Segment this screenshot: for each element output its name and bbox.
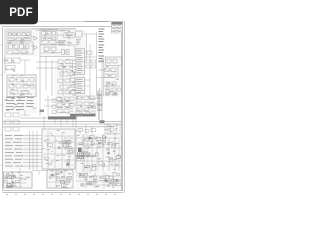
power area wires <box>76 134 121 171</box>
frame ticks left <box>0 45 2 165</box>
right mid small parts <box>97 58 122 96</box>
power area shades <box>82 134 85 172</box>
antenna arrow B <box>34 46 38 50</box>
page outer edge <box>0 22 125 194</box>
right cluster under IC <box>77 96 102 112</box>
notes list column <box>99 29 105 62</box>
audio area text labels <box>9 75 34 95</box>
right mid block <box>98 57 121 96</box>
svg-text:PDF: PDF <box>9 7 33 19</box>
audio block parts <box>9 78 34 95</box>
left mid connector cluster <box>3 58 30 75</box>
SAW filter block <box>40 30 57 45</box>
video amp box Q301 <box>76 31 83 37</box>
power transformer T501 <box>78 153 84 159</box>
ic right cluster <box>86 51 96 68</box>
sub IC U302 pins <box>77 79 83 93</box>
VIF module rounded <box>63 33 75 38</box>
sub board text labels <box>42 130 74 165</box>
jungle IC U301 pins <box>77 50 83 73</box>
frame ticks bottom <box>6 193 116 195</box>
chroma text labels <box>58 97 73 113</box>
flyback dark mark <box>78 148 82 153</box>
mid-right strip text <box>97 95 103 111</box>
ic cluster extras <box>79 106 95 116</box>
PDF badge <box>0 0 38 24</box>
middle sub-board box <box>42 129 75 169</box>
sub IC U302 body <box>76 78 85 94</box>
inter-box wire <box>32 171 47 176</box>
module notes text <box>58 41 71 46</box>
schematic frame <box>3 27 123 193</box>
right lower cluster <box>105 124 120 134</box>
xtal cluster <box>58 60 76 96</box>
tuner area text labels <box>8 32 30 53</box>
rightlow text labels <box>104 124 118 132</box>
bus junction blob <box>100 120 105 123</box>
bundle stubs <box>55 119 92 134</box>
IF filter boxes <box>7 42 33 54</box>
bottom-right components <box>79 173 121 186</box>
top feed wires <box>31 29 76 41</box>
audio block box <box>7 75 36 97</box>
bus lines mid <box>3 118 122 127</box>
pin strip left labels <box>74 60 75 88</box>
bottom-mid sub box <box>47 170 73 188</box>
mid-right component strip <box>98 88 103 120</box>
bm box text labels <box>49 170 71 188</box>
bottom-right wires <box>76 172 121 188</box>
long wires verticals <box>20 92 102 173</box>
bl box text labels <box>5 172 30 187</box>
left small comps under cluster <box>5 110 30 131</box>
antenna arrow A <box>34 36 38 40</box>
mid cluster labels <box>57 101 70 108</box>
horiz power wire dark <box>76 155 96 157</box>
bottom-mid components <box>50 171 72 187</box>
power area text labels <box>76 135 119 169</box>
chroma left extras <box>52 99 56 114</box>
right mid text blob <box>105 93 118 96</box>
leftmid text labels <box>5 58 20 72</box>
VIF module text <box>65 35 73 36</box>
dark bar right <box>70 114 96 117</box>
left connector list <box>5 135 23 167</box>
bottom-left components <box>5 174 20 188</box>
left dense cluster rows <box>6 97 34 110</box>
scan haze <box>2 28 122 189</box>
bottom-left sub box <box>4 172 33 188</box>
power area components <box>77 136 121 171</box>
sub-board components <box>44 140 75 166</box>
left connector wires <box>23 131 42 170</box>
pre-power comps <box>76 129 96 133</box>
mid dense cluster <box>44 96 74 116</box>
bottom-mid wires <box>48 170 72 188</box>
junction blob <box>40 110 45 113</box>
sync area text labels <box>58 59 76 95</box>
if area text labels <box>41 29 73 53</box>
left ctrl text labels <box>5 96 37 110</box>
tuner block TU101 <box>7 31 31 41</box>
ic column wires <box>82 32 97 96</box>
dark wire bundle <box>48 116 77 119</box>
br area text labels <box>77 172 116 187</box>
jungle IC U301 body <box>76 49 85 75</box>
rightmid text labels <box>104 66 118 94</box>
tuner pin ticks <box>9 37 29 40</box>
mid vertical wires <box>36 57 58 97</box>
sub-board wires <box>44 131 74 168</box>
wire top-left <box>5 29 76 74</box>
title block table <box>112 22 123 33</box>
video amp text <box>76 39 81 45</box>
filter bank box <box>40 45 75 57</box>
bottom-left wires <box>5 173 30 188</box>
ic lower text labels <box>77 96 96 110</box>
